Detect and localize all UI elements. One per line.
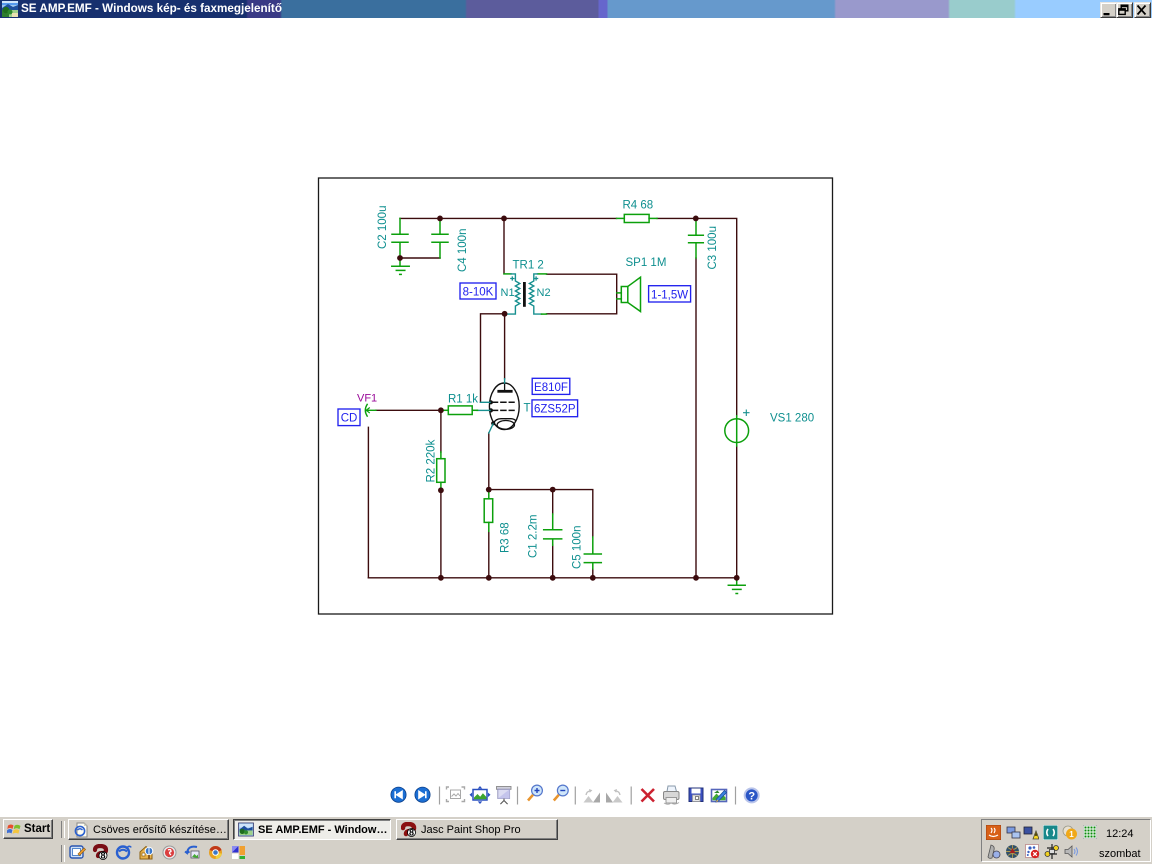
tube grid (dashed) [493,402,515,410]
wire N2 top to speaker loop [547,274,617,314]
secondary coil N2 [529,274,541,314]
wire R1 junction down to R2 [440,410,442,452]
best fit icon (disabled) [447,787,465,802]
app icon [2,1,18,17]
delete icon red X [642,789,655,802]
wire anode junction down to tube anode [504,314,506,379]
ql icon homesite [138,844,155,861]
wire C3 bottom down [695,258,697,578]
close button [1134,2,1151,18]
Start button [3,819,53,839]
wire C1 bottom down [552,545,554,578]
next button [415,787,430,802]
ql icon picture viewer [230,844,247,861]
wire top rail to transformer N1 [503,218,505,273]
tray row1 icon3 alert [1023,825,1039,840]
system tray [981,819,1151,862]
wire R3 bottom down [488,531,490,578]
junction R2 bottom [438,487,444,493]
capacitor C3 [689,218,704,258]
ql icon shareaza [161,844,178,861]
quick launch row [61,845,65,862]
zoom in icon [528,785,542,800]
junction ground rail C3 [693,575,699,581]
task button 3 [396,819,558,840]
tray row2 icon1 [986,844,1001,859]
wire VS1 bottom to ground rail [736,446,738,578]
wire R4 to right corner and down to VS1 [657,218,737,415]
junction C1 top [550,487,556,493]
title bar [0,0,1152,18]
tray row2 icon4 cable [1044,844,1060,859]
junction ground rail R2 [438,575,444,581]
tray row1 icon2 network [1006,825,1021,840]
slideshow icon [497,787,512,805]
junction ground rail C5 [590,575,596,581]
junction C4 top rail [437,216,443,222]
resistor R3 [484,490,493,532]
ql icon acdsee [184,844,201,861]
ql icon jetaudio [207,844,224,861]
capacitor C4 [432,218,448,258]
capacitor C2 [392,218,408,258]
tray row2 icon2 globe [1005,844,1020,859]
wire C1 top lead down [552,490,554,515]
wire input to R1 [376,409,441,411]
tray row2 icon5 speaker [1063,844,1079,859]
tray row1 icon4 teal [1043,825,1058,840]
boxed label E810F [532,378,570,394]
boxed label 1-1,5W [649,286,691,302]
junction ground rail VS1 [734,575,740,581]
boxed label 6ZS52P [532,400,578,417]
speaker SP1 [617,277,641,311]
tube pins [489,400,493,404]
restore button [1116,2,1133,18]
ql icon psp [92,844,109,861]
rotate ccw icon (disabled) [584,789,601,803]
boxed label CD [338,409,360,426]
rotate cw icon (disabled) [606,789,623,803]
wire ground rail [368,577,736,579]
wire top rail B+ [400,217,617,219]
resistor R1 [441,406,478,415]
junction ground rail C1 [550,575,556,581]
ground at C2 [392,258,409,274]
junction TR1 top rail [501,216,507,222]
phase dot N2 [535,277,538,280]
primary coil N1 [508,274,520,314]
input connector VF1 [365,404,376,416]
wire anode junction to g2 pin [481,314,505,403]
junction ground rail R3 [486,575,492,581]
junction C2 ground node [397,255,403,261]
voltage source VS1 [725,416,749,446]
wire cathode down to R3 node [488,433,490,490]
prev button [391,787,406,802]
junction C3 top rail [693,216,699,222]
transformer core [523,282,526,307]
tray row2 icon3 [1025,844,1040,859]
tube T1 envelope [489,383,519,430]
save icon (floppy) [689,788,703,802]
actual size icon [470,786,491,804]
minimize button [1100,2,1117,18]
boxed label 8-10K [460,283,496,299]
svg-text:1: 1 [1069,830,1074,839]
wire cathode node to C1 and C5 [489,490,593,538]
phase dot N1 [511,277,514,280]
print icon [664,786,680,804]
capacitor C5 [584,537,601,569]
svg-text:8: 8 [100,851,105,861]
junction cathode node [486,487,492,493]
tube pin stubs [477,379,505,433]
wire R2 bottom down [440,490,442,578]
VS1 plus mark [744,410,749,415]
tray row1 icon6 green grid [1083,825,1097,839]
help icon [745,788,759,802]
task button 2 active [233,819,391,840]
resistor R2 [437,452,445,490]
ql icon outlook [69,844,86,861]
tube anode [499,384,511,392]
capacitor C1 [544,514,562,545]
zoom out icon [554,785,568,800]
ground at VS1 [728,578,745,594]
schematic frame [319,178,833,614]
svg-text:?: ? [748,791,755,803]
ql icon ie [115,844,132,861]
tray row1 icon1 java [986,825,1001,840]
tray row1 icon5 msn [1062,825,1078,840]
edit icon [712,790,727,803]
junction grid node [438,407,444,413]
transformer TR1 [504,274,547,314]
wire C5 bottom down [592,569,594,578]
wire VF1 return down left side [367,427,369,578]
task button 1 [68,819,229,840]
wire C4 bottom to C2 ground node [400,257,440,259]
junction anode node [502,311,508,317]
resistor R4 [617,214,657,222]
taskbar [0,816,1152,864]
svg-text:8: 8 [409,827,414,837]
tube cathode [494,419,516,430]
